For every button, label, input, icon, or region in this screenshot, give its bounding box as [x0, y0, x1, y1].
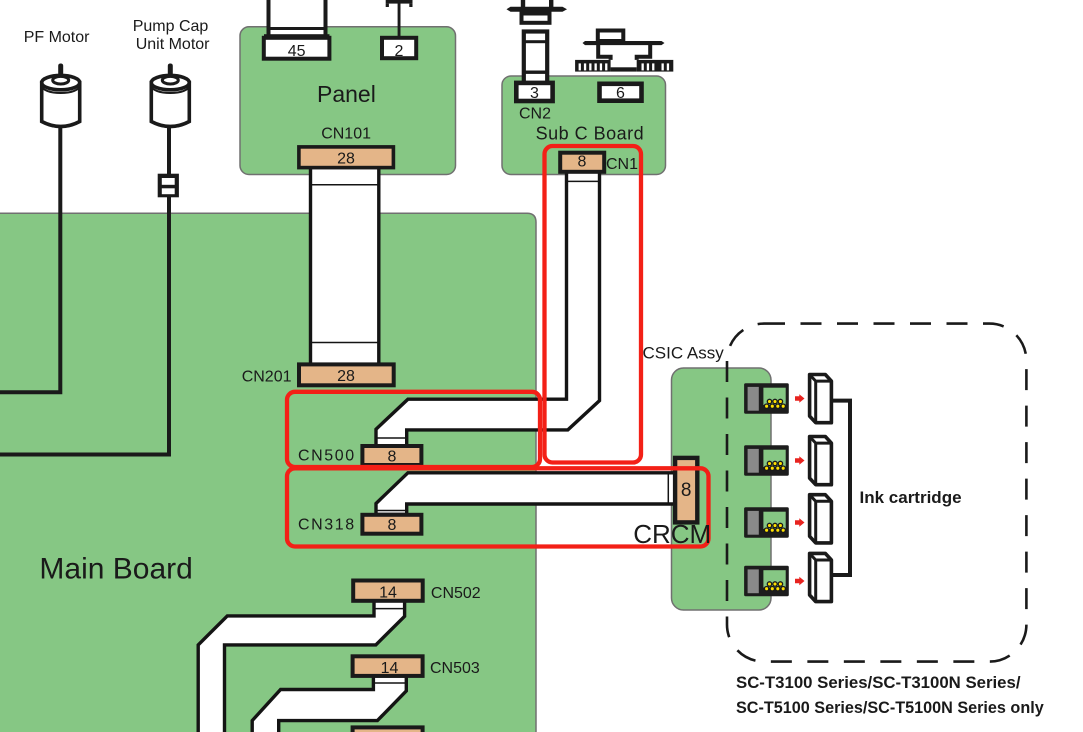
svg-text:Ink cartridge: Ink cartridge — [860, 488, 962, 507]
svg-text:8: 8 — [387, 449, 396, 466]
svg-text:Main Board: Main Board — [39, 552, 192, 585]
svg-text:Pump Cap: Pump Cap — [133, 18, 209, 35]
svg-text:28: 28 — [337, 368, 355, 385]
svg-text:8: 8 — [387, 517, 396, 534]
svg-text:28: 28 — [337, 151, 355, 168]
svg-text:Unit Motor: Unit Motor — [136, 36, 210, 53]
svg-text:45: 45 — [288, 43, 306, 60]
svg-text:CSIC Assy: CSIC Assy — [643, 343, 725, 362]
svg-text:8: 8 — [681, 480, 692, 501]
svg-text:SC-T5100 Series/SC-T5100N Seri: SC-T5100 Series/SC-T5100N Series only — [736, 699, 1044, 717]
svg-text:Panel: Panel — [317, 81, 376, 107]
svg-text:SC-T3100 Series/SC-T3100N Seri: SC-T3100 Series/SC-T3100N Series/ — [736, 673, 1021, 692]
svg-text:CN1: CN1 — [606, 156, 638, 173]
svg-text:CN101: CN101 — [321, 126, 371, 143]
svg-text:14: 14 — [379, 585, 397, 602]
svg-text:CN201: CN201 — [242, 369, 292, 386]
svg-text:3: 3 — [530, 85, 539, 102]
svg-text:2: 2 — [395, 43, 404, 60]
svg-text:CN503: CN503 — [430, 660, 480, 677]
svg-text:CN502: CN502 — [431, 585, 481, 602]
svg-text:CN318: CN318 — [298, 517, 356, 534]
svg-text:6: 6 — [616, 85, 625, 102]
svg-text:CN2: CN2 — [519, 106, 551, 123]
svg-text:8: 8 — [578, 154, 587, 171]
svg-text:PF Motor: PF Motor — [24, 29, 90, 46]
svg-text:Sub C Board: Sub C Board — [536, 123, 645, 143]
svg-text:CN500: CN500 — [298, 448, 356, 465]
svg-text:CRCM: CRCM — [633, 519, 711, 549]
svg-text:14: 14 — [381, 660, 399, 677]
